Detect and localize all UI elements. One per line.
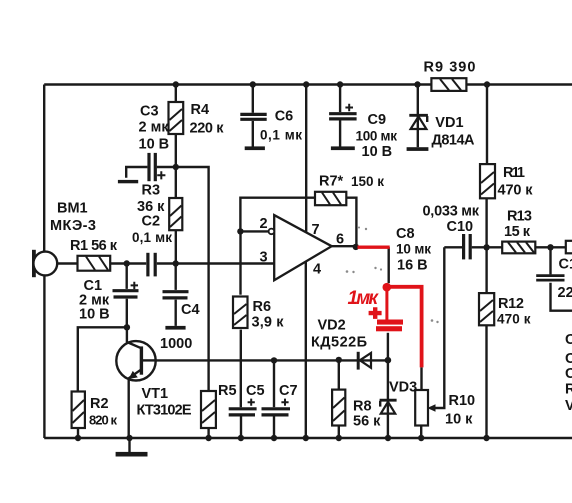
svg-text:С1: С1	[565, 351, 572, 367]
svg-text:R12: R12	[498, 296, 524, 312]
svg-text:56 к: 56 к	[353, 414, 381, 430]
svg-text:R6: R6	[253, 299, 272, 315]
svg-text:С5: С5	[246, 383, 265, 399]
svg-text:0,033 мк: 0,033 мк	[423, 204, 480, 220]
svg-text:1000: 1000	[160, 336, 192, 352]
svg-text:С6: С6	[275, 109, 294, 125]
svg-text:470 к: 470 к	[497, 312, 531, 327]
svg-text:КД522Б: КД522Б	[311, 335, 367, 351]
svg-text:VD1: VD1	[435, 115, 463, 131]
svg-text:2 мк: 2 мк	[139, 120, 170, 136]
svg-text:15 к: 15 к	[504, 224, 531, 240]
svg-text:R2: R2	[90, 396, 109, 412]
svg-text:КТ3102Е: КТ3102Е	[137, 403, 192, 419]
svg-text:150 к: 150 к	[351, 174, 384, 189]
svg-text:10 к: 10 к	[445, 412, 473, 428]
svg-text:ВМ1: ВМ1	[57, 201, 88, 217]
svg-text:22: 22	[558, 285, 572, 301]
svg-text:100 мк: 100 мк	[356, 129, 398, 144]
svg-text:С1: С1	[559, 257, 572, 273]
svg-text:7: 7	[312, 222, 320, 238]
svg-text:4: 4	[313, 262, 321, 278]
svg-text:Д814А: Д814А	[432, 133, 476, 149]
svg-text:470 к: 470 к	[498, 183, 534, 199]
svg-text:С8: С8	[396, 226, 415, 242]
svg-text:6: 6	[336, 232, 344, 248]
svg-text:С2: С2	[142, 214, 161, 230]
svg-text:R10: R10	[449, 393, 476, 409]
svg-text:820 к: 820 к	[89, 413, 117, 428]
svg-text:2: 2	[260, 216, 268, 232]
svg-text:С3: С3	[140, 104, 159, 120]
svg-text:С7: С7	[279, 383, 298, 399]
svg-text:16 В: 16 В	[397, 258, 428, 274]
svg-text:R7*: R7*	[319, 174, 344, 190]
svg-text:VD2: VD2	[318, 318, 346, 334]
svg-text:R4: R4	[191, 102, 210, 118]
svg-text:МКЭ-3: МКЭ-3	[50, 218, 96, 234]
svg-text:С4: С4	[181, 302, 200, 318]
svg-text:R1 56 к: R1 56 к	[70, 238, 118, 254]
svg-text:С1: С1	[565, 332, 572, 348]
svg-text:С9: С9	[368, 112, 387, 128]
svg-text:R11: R11	[503, 165, 525, 181]
svg-text:VТ: VТ	[565, 398, 572, 414]
svg-text:10 В: 10 В	[79, 307, 110, 323]
svg-text:С1: С1	[565, 366, 572, 382]
svg-text:R3: R3	[142, 183, 161, 199]
svg-text:3: 3	[260, 250, 268, 266]
svg-text:220 к: 220 к	[190, 121, 225, 137]
svg-text:С10: С10	[447, 219, 474, 235]
svg-text:3,9 к: 3,9 к	[252, 315, 285, 331]
svg-text:0,1 мк: 0,1 мк	[260, 128, 302, 143]
svg-text:10 мк: 10 мк	[396, 242, 431, 257]
svg-text:10 В: 10 В	[139, 137, 170, 153]
svg-text:VD3: VD3	[389, 380, 417, 396]
svg-text:1мк: 1мк	[348, 288, 380, 309]
svg-text:R13: R13	[507, 209, 532, 225]
svg-text:R1: R1	[565, 382, 572, 398]
svg-text:10 В: 10 В	[362, 144, 393, 160]
svg-text:R5: R5	[218, 383, 237, 399]
svg-text:0,1 мк: 0,1 мк	[132, 230, 172, 245]
svg-text:VT1: VT1	[142, 386, 169, 402]
svg-text:R8: R8	[353, 399, 372, 415]
svg-text:R9 390: R9 390	[424, 60, 476, 76]
